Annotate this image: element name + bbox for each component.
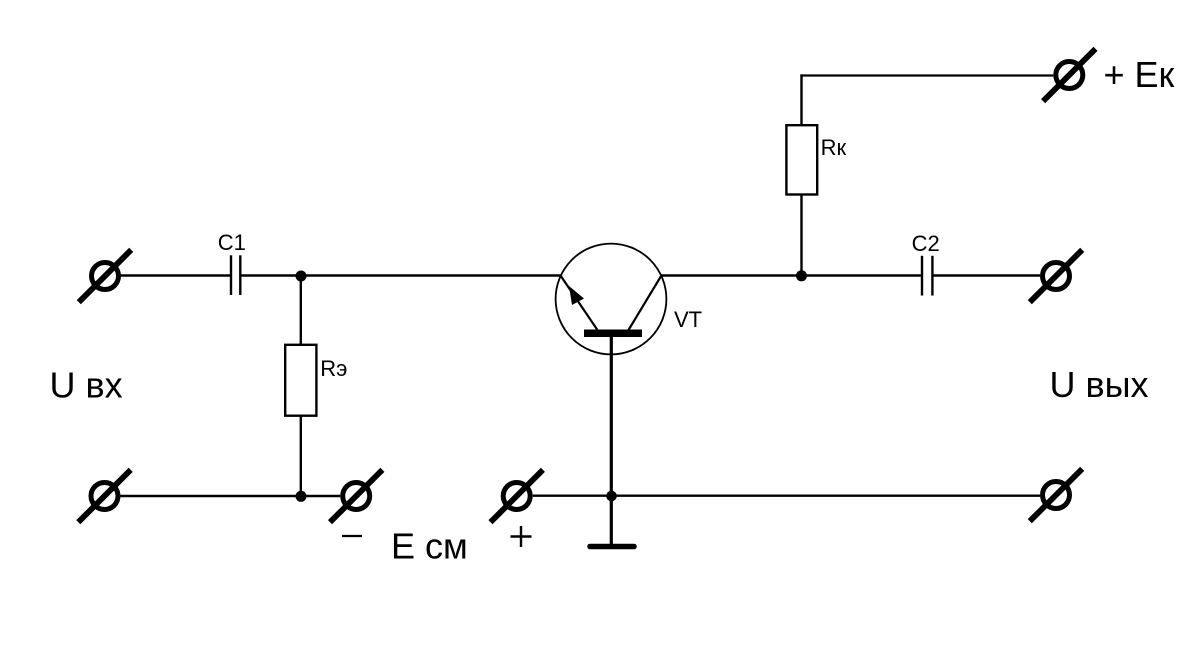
resistor Rэ (285, 345, 316, 416)
wire corner to Ек terminal (800, 74, 1053, 76)
transistor VT emitter arrow (569, 286, 584, 305)
transistor VT circle (556, 244, 667, 355)
wire bottom-left terminal to Есм minus terminal (120, 495, 340, 497)
svg-text:C1: C1 (218, 230, 246, 255)
svg-text:C2: C2 (912, 231, 940, 256)
terminal +Ек (1043, 49, 1095, 101)
terminal input top-left (79, 250, 131, 302)
svg-text:VT: VT (674, 307, 702, 332)
ground (590, 544, 634, 550)
svg-text:Rк: Rк (821, 135, 847, 160)
capacitor C2 (922, 256, 932, 296)
wire C2 to output terminal (934, 274, 1041, 276)
svg-text:Rэ: Rэ (320, 356, 347, 381)
wire Rэ bottom to bottom junction (300, 416, 302, 496)
svg-text:Е см: Е см (391, 526, 468, 567)
wire transistor base down to ground (610, 336, 613, 544)
node junction bottom-left (296, 491, 307, 502)
transistor VT base bar (584, 330, 642, 338)
terminal input bottom-left (78, 470, 130, 522)
terminal Есм plus (491, 470, 543, 522)
transistor VT collector line (629, 276, 662, 331)
wire Rк top to corner (800, 74, 802, 125)
wire transistor collector to C2 (661, 274, 922, 276)
transistor VT emitter line (561, 276, 597, 330)
node junction input row (296, 271, 307, 282)
wire junction to Rк bottom (800, 195, 802, 276)
wire input terminal to C1 (120, 274, 231, 276)
terminal output top-right (1030, 250, 1082, 302)
svg-text:U вх: U вх (50, 365, 123, 406)
terminal Есм minus (330, 470, 382, 522)
wire plus terminal to bottom-right terminal (533, 495, 1040, 497)
resistor Rк (786, 125, 817, 194)
node junction ground (606, 491, 617, 502)
svg-text:U вых: U вых (1050, 364, 1149, 405)
wire junction to Rэ top (300, 276, 302, 345)
node junction collector row (796, 270, 807, 281)
svg-text:+ Ек: + Ек (1104, 54, 1175, 95)
minus sign (342, 535, 362, 537)
capacitor C1 (231, 255, 240, 295)
plus sign (511, 526, 532, 547)
wire C1 to transistor emitter (242, 274, 561, 276)
terminal output bottom-right (1030, 469, 1082, 521)
